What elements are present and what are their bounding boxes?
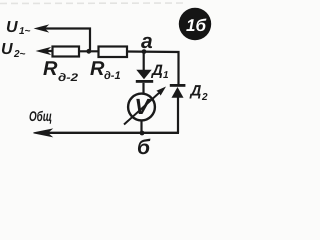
wire U1 arrow xyxy=(44,29,90,51)
figure label 1б xyxy=(179,8,211,40)
svg-text:1б: 1б xyxy=(186,16,206,35)
wire Д2 down to bottom corner xyxy=(177,98,179,134)
svg-text:Д: Д xyxy=(189,83,202,100)
svg-text:Общ: Общ xyxy=(29,108,52,124)
svg-text:д-1: д-1 xyxy=(104,70,121,82)
svg-text:д-2: д-2 xyxy=(58,72,78,84)
svg-text:1~: 1~ xyxy=(19,26,31,37)
resistor Rд-2 xyxy=(43,47,79,85)
wire between resistors xyxy=(79,50,99,52)
diode Д1 xyxy=(136,62,169,83)
svg-text:Д: Д xyxy=(150,62,163,79)
faint page edge line xyxy=(0,2,186,5)
wire voltmeter to node б xyxy=(140,120,142,133)
wire R2 to node a to top-right corner xyxy=(127,52,179,85)
node б xyxy=(137,131,151,159)
bottom wire xyxy=(45,132,179,134)
terminal label U2~ xyxy=(1,41,26,60)
svg-text:U: U xyxy=(1,41,13,58)
arrowhead U2 xyxy=(38,48,50,54)
svg-text:R: R xyxy=(43,58,58,80)
arrowhead Общ xyxy=(34,129,52,136)
svg-text:2~: 2~ xyxy=(13,49,26,60)
diode Д2 xyxy=(170,83,208,104)
svg-text:U: U xyxy=(6,19,18,36)
svg-text:V: V xyxy=(135,94,152,119)
terminal label U1~ xyxy=(6,19,31,37)
resistor Rд-1 xyxy=(90,47,127,83)
svg-text:б: б xyxy=(137,136,151,159)
node a xyxy=(141,30,153,54)
voltmeter V xyxy=(124,87,166,125)
wire Д1 to voltmeter xyxy=(142,83,144,95)
wire U2 arrow xyxy=(45,50,53,52)
svg-text:a: a xyxy=(141,30,153,53)
junction node xyxy=(86,49,91,54)
svg-text:R: R xyxy=(90,58,105,80)
wire node a down to diode Д1 xyxy=(143,52,145,71)
arrowhead U1 xyxy=(36,25,48,31)
svg-text:1: 1 xyxy=(163,70,169,81)
svg-text:2: 2 xyxy=(201,92,208,103)
